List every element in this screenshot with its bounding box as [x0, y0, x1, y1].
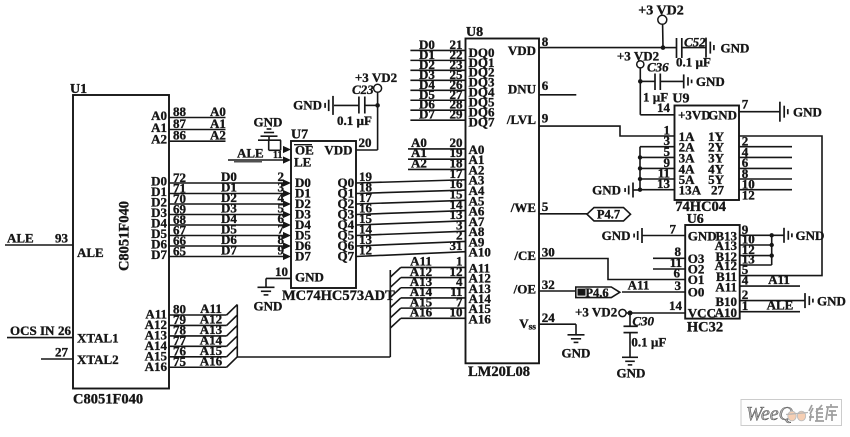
wire net A2 to U8 pin 18	[408, 168, 466, 170]
wire net A11 to U8 pin 1	[401, 266, 466, 268]
svg-text:27: 27	[55, 345, 69, 360]
bus tap diagonal A11 right	[390, 267, 401, 277]
wire net ALE into U1 pin 93	[5, 244, 73, 246]
wire GND to U7 pin 1 OE	[258, 139, 281, 141]
svg-text:24: 24	[542, 310, 556, 325]
svg-text:14: 14	[669, 298, 683, 313]
wire net A11 to U6 pin 3 O0	[622, 291, 685, 293]
bus tap diagonal A11 left	[227, 305, 238, 315]
svg-text:ALE: ALE	[7, 231, 34, 246]
svg-text:DQ7: DQ7	[469, 115, 496, 130]
svg-text:LE: LE	[294, 155, 311, 170]
wire U7 pin 14 Q5 to U8 pin 3 A8	[356, 231, 466, 235]
svg-text:GND: GND	[708, 108, 737, 123]
svg-text:8: 8	[542, 34, 549, 49]
svg-text:D7: D7	[151, 247, 167, 262]
wire net A15 to U8 pin 7	[401, 307, 466, 309]
wire stub U9 output at y189.7	[739, 189, 792, 191]
svg-text:U6: U6	[687, 212, 704, 227]
svg-text:GND: GND	[602, 228, 631, 243]
wire stub U9 input at y157.4	[640, 156, 675, 158]
wire net D4 from U1 pin 68 to U7 pin 6	[169, 224, 284, 226]
svg-text:GND: GND	[721, 41, 750, 56]
svg-text:13A: 13A	[679, 183, 702, 198]
svg-text:A11: A11	[628, 278, 650, 293]
svg-text:VCC: VCC	[688, 306, 716, 321]
svg-text:3: 3	[675, 278, 682, 293]
wire stub U9 input at y168.4	[640, 167, 675, 169]
junction	[770, 233, 774, 237]
wire U6 pin 1 A10 net ALE	[740, 311, 800, 313]
wire net A1 to U8 pin 19	[408, 158, 466, 160]
svg-text:10: 10	[275, 264, 288, 279]
wire net A12 to U8 pin 12	[401, 277, 466, 279]
svg-text:U9: U9	[672, 92, 689, 107]
svg-text:9: 9	[542, 111, 549, 126]
ground at C30	[622, 356, 638, 358]
svg-text:O0: O0	[688, 285, 705, 300]
wire net D0 to U8 pin 21 DQ0	[410, 49, 465, 51]
svg-text:11: 11	[273, 150, 282, 161]
svg-text:C23: C23	[352, 82, 374, 97]
svg-text:MC74HC573ADT: MC74HC573ADT	[282, 288, 395, 304]
svg-text:C8051F040: C8051F040	[73, 392, 143, 408]
svg-text:A2: A2	[210, 128, 226, 143]
svg-text:GND: GND	[793, 105, 822, 120]
svg-text:12: 12	[359, 243, 372, 258]
wire stub U9 input at y189.7	[640, 189, 675, 191]
bus tap diagonal A16 left	[227, 357, 238, 367]
or-gate U6 HC32 body	[685, 225, 740, 319]
wire net D0 from U1 pin 72 to U7 pin 2	[169, 182, 284, 184]
svg-text:A10: A10	[469, 245, 491, 260]
svg-text:14: 14	[657, 100, 671, 115]
mcu U1 C8051F040 body	[73, 95, 169, 389]
flag P4.6	[576, 287, 620, 298]
svg-text:A16: A16	[145, 359, 168, 374]
watermark WeeQoo box	[741, 400, 842, 426]
wire U7 pin 18 Q1 to U8 pin 16 A4	[356, 190, 466, 193]
wire U9 input tie bus	[639, 147, 641, 190]
wire net ALE to U7 pin 11 LE	[228, 159, 284, 161]
wire stub U9 input at y146.7	[640, 146, 675, 148]
junction	[638, 166, 642, 170]
svg-text:GND: GND	[295, 270, 324, 285]
wire net D2 to U8 pin 23 DQ2	[410, 69, 465, 71]
wire net A14 from U1 pin 77	[169, 345, 227, 347]
svg-text:GND: GND	[696, 74, 725, 89]
power +3 VD2 at U7	[374, 84, 382, 92]
svg-text:/LVL: /LVL	[506, 112, 536, 127]
wire stub U9 output at y179	[739, 178, 792, 180]
ground at C36	[683, 74, 685, 88]
svg-text:/OE: /OE	[513, 282, 536, 297]
wire U6 row to tie at y245	[740, 244, 772, 246]
svg-text:ALE: ALE	[237, 146, 264, 161]
wire U6 pin 9 B13 to ground	[740, 234, 784, 236]
svg-text:U8: U8	[466, 25, 483, 40]
svg-text:DNU: DNU	[508, 82, 537, 97]
wire +3 VD2 to U9 pin 14	[640, 114, 674, 116]
svg-text:D7: D7	[419, 107, 435, 122]
bus tap diagonal A15 left	[227, 346, 238, 356]
wire stub U6 pin 11 O2	[653, 268, 685, 270]
svg-text:GND: GND	[293, 98, 322, 113]
wire net A11 from U1 pin 80	[169, 314, 227, 316]
svg-text:75: 75	[173, 354, 187, 369]
svg-text:/WE: /WE	[510, 200, 536, 215]
bus tap diagonal A12 left	[227, 315, 238, 325]
svg-text:VDD: VDD	[508, 43, 536, 58]
wire net D2 from U1 pin 70 to U7 pin 4	[169, 203, 284, 205]
svg-text:A16: A16	[200, 353, 223, 368]
svg-text:C8051F040: C8051F040	[117, 201, 133, 271]
svg-text:9: 9	[278, 243, 285, 258]
svg-text:GND: GND	[617, 366, 646, 381]
junction	[638, 177, 642, 181]
wire net D7 to U8 pin 29 DQ7	[410, 119, 465, 121]
svg-text:A16: A16	[469, 311, 492, 326]
svg-text:GND: GND	[562, 346, 591, 361]
wire net D5 to U8 pin 27 DQ5	[410, 99, 465, 101]
bus tap diagonal A13 left	[227, 325, 238, 335]
capacitor C23 0.1uF	[365, 104, 378, 106]
ground at U8 Vss	[568, 334, 585, 336]
wire U1 pin 27 XTAL2	[41, 358, 73, 360]
svg-text:P4.6: P4.6	[585, 286, 608, 300]
svg-text:GND: GND	[254, 299, 283, 314]
svg-text:32: 32	[542, 277, 555, 292]
wire U6 pin 7 GND to ground	[642, 235, 685, 237]
svg-text:GND: GND	[688, 229, 717, 244]
svg-text:XTAL1: XTAL1	[77, 331, 119, 346]
junction	[638, 155, 642, 159]
wire net A2 from U1 pin 86	[169, 140, 226, 142]
wire net OCS IN into U1 pin 26 XTAL1	[7, 337, 73, 339]
wire net A14 to U8 pin 11	[401, 297, 466, 299]
wire U6 row to tie at y255.6	[740, 255, 772, 257]
bus tap diagonal A14 right	[390, 298, 401, 308]
flag P4.7	[587, 208, 631, 221]
wire U6 row to tie at y265	[740, 264, 772, 266]
svg-text:29: 29	[450, 107, 464, 122]
wire stub U6 pin 8 O3	[653, 257, 685, 259]
svg-text:OCS IN: OCS IN	[10, 323, 55, 338]
svg-text:VDD: VDD	[324, 143, 352, 158]
wire stub U9 output at y157.4	[739, 156, 792, 158]
svg-text:0.1 µF: 0.1 µF	[631, 335, 666, 350]
wire U7 pin 10 GND to ground	[266, 277, 291, 279]
svg-text:86: 86	[173, 128, 187, 143]
bus tap diagonal A16 right	[390, 318, 401, 328]
memory U8 LM20L08 body	[466, 39, 540, 364]
svg-text:6: 6	[542, 78, 549, 93]
svg-text:XTAL2: XTAL2	[77, 352, 119, 367]
svg-text:10: 10	[450, 305, 463, 320]
ground at C23	[332, 96, 334, 115]
wire U7 pin 16 Q3 to U8 pin 14 A6	[356, 211, 466, 215]
wire stub U9 input at y179	[640, 178, 675, 180]
wire net A1 from U1 pin 87	[169, 129, 226, 131]
ground at C52	[705, 38, 707, 58]
svg-text:93: 93	[55, 231, 69, 246]
wire U7 pin 15 Q4 to U8 pin 13 A7	[356, 221, 466, 225]
svg-text:A11: A11	[715, 279, 737, 294]
wire U7 pin 17 Q2 to U8 pin 15 A5	[356, 200, 466, 204]
svg-text:65: 65	[173, 243, 187, 258]
svg-text:D7: D7	[221, 243, 237, 258]
wire tie B13-A13-B12-A12	[771, 235, 773, 265]
svg-text:31: 31	[450, 238, 463, 253]
wire stub U9 output at y168.4	[739, 167, 792, 169]
wire net D5 from U1 pin 67 to U7 pin 7	[169, 235, 284, 237]
svg-text:20: 20	[359, 135, 372, 150]
svg-text:P4.7: P4.7	[597, 208, 620, 222]
svg-text:ALE: ALE	[767, 298, 794, 313]
svg-text:GND: GND	[817, 294, 846, 309]
wire U6 pin 4 A11 stub	[740, 285, 800, 287]
wire net D4 to U8 pin 26 DQ4	[410, 89, 465, 91]
svg-text:/CE: /CE	[513, 248, 536, 263]
svg-text:GND: GND	[592, 183, 621, 198]
wire U6 pin 2 B10 to ground	[740, 300, 805, 302]
wire net D7 from U1 pin 65 to U7 pin 9	[169, 256, 284, 258]
bus tap diagonal A14 left	[227, 336, 238, 346]
svg-text:30: 30	[542, 245, 555, 260]
svg-text:D7: D7	[295, 249, 311, 264]
junction	[638, 188, 642, 192]
svg-text:A2: A2	[151, 132, 167, 147]
wire net A0 to U8 pin 20	[408, 148, 466, 150]
svg-text:C30: C30	[632, 314, 654, 329]
wire net A13 from U1 pin 78	[169, 335, 227, 337]
inverter U9 74HC04 body	[675, 106, 740, 201]
wire U7 pin 12 Q7 to U8 pin 31 A10	[356, 252, 466, 257]
wire U7 pin 20 VDD	[356, 149, 378, 151]
svg-text:7: 7	[670, 222, 677, 237]
svg-text:U1: U1	[70, 82, 87, 97]
svg-text:7: 7	[742, 97, 749, 112]
wire net A13 to U8 pin 4	[401, 287, 466, 289]
svg-text:C52: C52	[684, 34, 706, 49]
svg-text:5: 5	[542, 199, 549, 214]
capacitor C36 1uF	[640, 80, 655, 82]
bus tap diagonal A12 right	[390, 278, 401, 288]
bus vertical left	[236, 305, 238, 358]
wire U7 pin 19 Q0 to U8 pin 17 A3	[356, 180, 466, 183]
svg-text:HC32: HC32	[687, 320, 723, 336]
ground below U7	[258, 286, 275, 288]
svg-text:A11: A11	[768, 272, 790, 287]
bus horizontal bottom	[237, 356, 390, 358]
bus tap diagonal A15 right	[390, 308, 401, 318]
wire net D1 to U8 pin 22 DQ1	[410, 59, 465, 61]
junction	[770, 253, 774, 257]
svg-text:A10: A10	[715, 305, 737, 320]
wire net D1 from U1 pin 71 to U7 pin 3	[169, 193, 284, 195]
wire net A16 from U1 pin 75	[169, 366, 227, 368]
wire U9 pin 2 1Y to U6 pin 5 B11	[739, 136, 822, 276]
svg-text:ALE: ALE	[77, 245, 104, 260]
capacitor C30 0.1uF	[629, 313, 631, 326]
svg-text:0.1 µF: 0.1 µF	[337, 113, 372, 128]
wire net D6 from U1 pin 66 to U7 pin 8	[169, 245, 284, 247]
svg-text:U7: U7	[291, 128, 308, 143]
wire net A15 from U1 pin 76	[169, 356, 227, 358]
svg-text:A16: A16	[410, 305, 433, 320]
svg-text:+3 VD2: +3 VD2	[575, 305, 617, 320]
wire net D3 to U8 pin 25 DQ3	[410, 79, 465, 81]
svg-text:27: 27	[711, 183, 725, 198]
svg-text:LM20L08: LM20L08	[468, 364, 530, 380]
bus tap diagonal A13 right	[390, 288, 401, 298]
wire U7 pin 13 Q6 to U8 pin 2 A9	[356, 241, 466, 246]
watermark hanzi 维库	[809, 404, 838, 421]
wire net D3 from U1 pin 69 to U7 pin 5	[169, 214, 284, 216]
wire stub U9 output at y146.7	[739, 146, 792, 148]
svg-text:A2: A2	[411, 155, 427, 170]
wire U9 pin 7 GND to ground	[739, 111, 780, 113]
wire net D6 to U8 pin 28 DQ6	[410, 109, 465, 111]
svg-text:+3VD: +3VD	[678, 108, 711, 123]
wire net A12 from U1 pin 79	[169, 324, 227, 326]
wire net A16 to U8 pin 10	[401, 317, 466, 319]
capacitor C52 0.1uF	[663, 47, 677, 49]
wire net A0 from U1 pin 88	[169, 117, 226, 119]
svg-text:GND: GND	[796, 228, 825, 243]
svg-text:GND: GND	[254, 115, 283, 130]
svg-text:Q7: Q7	[338, 249, 355, 264]
svg-text:26: 26	[58, 323, 72, 338]
svg-text:C36: C36	[647, 60, 669, 75]
junction	[770, 243, 774, 247]
ground at U9 inputs	[633, 189, 640, 191]
latch U7 MC74HC573ADT body	[291, 141, 356, 288]
bus vertical right	[389, 270, 391, 357]
